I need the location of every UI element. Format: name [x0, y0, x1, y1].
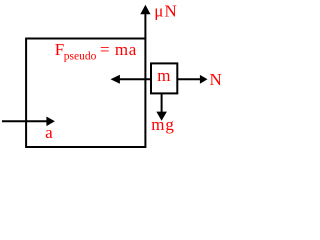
- normal force arrow N (rightward): [177, 78, 201, 80]
- pseudo force arrow (leftward from block m): [119, 78, 151, 80]
- svg-text:m: m: [157, 66, 170, 85]
- svg-text:μN: μN: [154, 1, 178, 20]
- svg-text:mg: mg: [151, 115, 174, 134]
- svg-text:N: N: [210, 70, 222, 89]
- friction force arrow muN (upward): [144, 14, 146, 39]
- svg-text:pseudo: pseudo: [64, 51, 97, 63]
- cart (big block) outline: [26, 39, 145, 148]
- small block m: [151, 63, 177, 93]
- acceleration arrow a (rightward, bottom left): [2, 120, 48, 122]
- svg-text:a: a: [45, 123, 53, 142]
- weight arrow mg (downward): [161, 94, 163, 113]
- svg-text:= ma: = ma: [100, 40, 137, 59]
